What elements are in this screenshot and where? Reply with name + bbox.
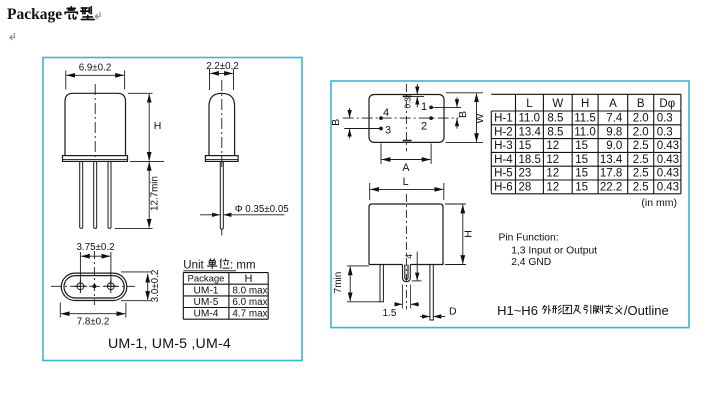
front body <box>65 93 126 155</box>
svg-text:Package: Package <box>188 274 225 285</box>
svg-text:H-2: H-2 <box>494 126 513 138</box>
svg-text:0.3: 0.3 <box>404 97 413 109</box>
front leads <box>80 161 83 228</box>
caption CJK 外形图及引脚定义 <box>542 305 551 314</box>
dim B left <box>349 108 351 139</box>
svg-text:UM-1, UM-5 ,UM-4: UM-1, UM-5 ,UM-4 <box>108 336 231 352</box>
svg-text:W: W <box>474 113 486 123</box>
svg-text:0.43: 0.43 <box>657 140 679 152</box>
index notches <box>403 96 412 140</box>
CJK 位 <box>220 258 229 268</box>
svg-text:3.75±0.2: 3.75±0.2 <box>76 242 114 253</box>
svg-text:15: 15 <box>575 182 588 194</box>
pin numbers <box>383 101 427 137</box>
svg-text:A: A <box>402 162 410 174</box>
front centerline <box>94 84 96 160</box>
svg-text:B: B <box>330 119 342 126</box>
side body <box>209 93 235 155</box>
svg-text:6.9±0.2: 6.9±0.2 <box>79 63 112 74</box>
svg-text:23: 23 <box>519 168 532 180</box>
svg-text:H: H <box>581 98 589 110</box>
dim 6.9±0.2 <box>66 71 125 90</box>
svg-text:2.5: 2.5 <box>633 168 649 180</box>
svg-text:0.43: 0.43 <box>657 168 679 180</box>
svg-text:0.3: 0.3 <box>657 126 673 138</box>
svg-text:1.5: 1.5 <box>383 308 397 319</box>
svg-text:1,3 Input or Output: 1,3 Input or Output <box>511 246 597 257</box>
svg-text:8.5: 8.5 <box>547 113 563 125</box>
svg-text:0.43: 0.43 <box>657 182 679 194</box>
svg-text:18.5: 18.5 <box>519 154 541 166</box>
dim W <box>446 93 483 143</box>
left lead <box>380 265 383 302</box>
front body <box>369 204 443 265</box>
svg-text:UM-1: UM-1 <box>194 285 219 296</box>
svg-text:9.8: 9.8 <box>606 126 622 138</box>
svg-text:2.5: 2.5 <box>633 182 649 194</box>
svg-text:D: D <box>449 306 457 318</box>
svg-text:2.5: 2.5 <box>633 140 649 152</box>
svg-text:15: 15 <box>575 168 588 180</box>
svg-text:Dφ: Dφ <box>659 98 675 110</box>
unit table grid <box>183 273 268 320</box>
title CJK 壳 <box>65 7 77 19</box>
dim 4 <box>412 252 422 281</box>
svg-text:Pin Function:: Pin Function: <box>499 232 559 243</box>
svg-text:2.0: 2.0 <box>633 113 649 125</box>
svg-text:UM-4: UM-4 <box>194 309 219 320</box>
svg-text:12: 12 <box>546 154 559 166</box>
B column <box>633 113 649 194</box>
svg-text:1: 1 <box>421 101 427 113</box>
bottom view holes <box>74 280 118 294</box>
svg-text:B: B <box>457 111 469 118</box>
svg-text:H-3: H-3 <box>494 140 513 152</box>
svg-text:12: 12 <box>546 168 559 180</box>
dim 7min <box>347 266 380 302</box>
svg-text:H: H <box>245 273 253 285</box>
right panel border <box>331 81 689 328</box>
svg-text:8.0 max: 8.0 max <box>232 285 267 296</box>
pin leader lines <box>344 107 461 128</box>
dim B right <box>456 97 458 129</box>
svg-text:H: H <box>462 230 474 238</box>
svg-text:Package: Package <box>7 6 62 23</box>
svg-text:22.2: 22.2 <box>600 182 622 194</box>
svg-text:15: 15 <box>575 154 588 166</box>
dim 3.0±0.2 <box>121 272 151 301</box>
top view centerlines <box>405 84 407 151</box>
dim 12.7min <box>115 162 153 228</box>
svg-text:2,4 GND: 2,4 GND <box>511 257 551 268</box>
svg-text:H-1: H-1 <box>494 113 513 125</box>
svg-text:12.7min: 12.7min <box>150 176 161 211</box>
pin dots <box>379 116 383 120</box>
top view body outline <box>369 95 444 143</box>
svg-text:2.0: 2.0 <box>633 126 649 138</box>
dim H right box <box>445 204 466 265</box>
svg-text:UM-5: UM-5 <box>194 297 219 308</box>
svg-text:H-5: H-5 <box>494 168 513 180</box>
svg-text:7.8±0.2: 7.8±0.2 <box>77 316 110 327</box>
svg-text:2: 2 <box>421 121 427 133</box>
svg-text:W: W <box>552 98 563 110</box>
svg-text:13.4: 13.4 <box>519 126 542 138</box>
dim 0.3 <box>403 84 424 107</box>
svg-text:: mm: : mm <box>230 260 256 272</box>
paragraph return mark 1 <box>95 12 100 19</box>
crystal U tube <box>403 265 411 282</box>
svg-text:(in mm): (in mm) <box>641 197 677 209</box>
pin function notes <box>499 232 598 268</box>
table rows <box>494 113 679 194</box>
side centerline <box>221 80 223 168</box>
svg-text:11.5: 11.5 <box>574 113 596 125</box>
svg-text:4: 4 <box>383 107 389 119</box>
svg-text:0.43: 0.43 <box>657 154 679 166</box>
svg-text:L: L <box>403 176 409 188</box>
unit table text <box>188 274 225 285</box>
dim 1.5 <box>395 285 420 309</box>
svg-text:Φ 0.35±0.05: Φ 0.35±0.05 <box>235 204 290 215</box>
dim H (left box) <box>128 93 164 161</box>
dim 7.8±0.2 <box>60 303 126 318</box>
svg-text:2.5: 2.5 <box>633 154 649 166</box>
front flange <box>63 156 128 162</box>
paragraph return mark 2 <box>10 33 15 40</box>
title CJK 型 <box>81 7 94 20</box>
dim D <box>420 316 445 318</box>
svg-text:A: A <box>609 98 617 110</box>
svg-text:28: 28 <box>519 182 532 194</box>
svg-text:8.5: 8.5 <box>547 126 563 138</box>
svg-text:7.4: 7.4 <box>606 113 623 125</box>
svg-text:12: 12 <box>546 140 559 152</box>
svg-text:3.0±0.2: 3.0±0.2 <box>150 270 161 303</box>
svg-text:/Outline: /Outline <box>624 303 669 318</box>
bottom view stadium <box>61 273 127 300</box>
svg-text:H-6: H-6 <box>494 182 513 194</box>
svg-text:6.0 max: 6.0 max <box>232 297 267 308</box>
svg-text:13.4: 13.4 <box>600 154 623 166</box>
svg-text:15: 15 <box>575 140 588 152</box>
svg-text:H: H <box>154 120 162 132</box>
svg-text:7min: 7min <box>333 272 344 294</box>
bottom view centerlines <box>51 285 135 287</box>
svg-text:17.8: 17.8 <box>600 168 622 180</box>
CJK 单 <box>207 258 217 269</box>
svg-text:Unit: Unit <box>183 260 204 272</box>
table header <box>526 98 675 110</box>
svg-text:12: 12 <box>546 182 559 194</box>
svg-text:9.0: 9.0 <box>606 140 622 152</box>
svg-text:4.7 max: 4.7 max <box>232 309 267 320</box>
svg-text:11.0: 11.0 <box>519 113 541 125</box>
side flange <box>205 156 238 162</box>
svg-text:11.0: 11.0 <box>574 126 596 138</box>
svg-text:H-4: H-4 <box>494 154 513 166</box>
svg-text:0.3: 0.3 <box>657 113 673 125</box>
svg-text:L: L <box>526 98 533 110</box>
svg-text:4: 4 <box>404 254 414 259</box>
front centerline <box>405 194 407 310</box>
side lead <box>220 161 223 229</box>
svg-text:3: 3 <box>385 125 391 137</box>
dim A <box>381 144 431 165</box>
right lead <box>430 265 433 321</box>
svg-text:H1~H6: H1~H6 <box>497 303 538 318</box>
svg-text:B: B <box>637 98 645 110</box>
left panel border <box>43 58 302 361</box>
svg-text:15: 15 <box>519 140 532 152</box>
